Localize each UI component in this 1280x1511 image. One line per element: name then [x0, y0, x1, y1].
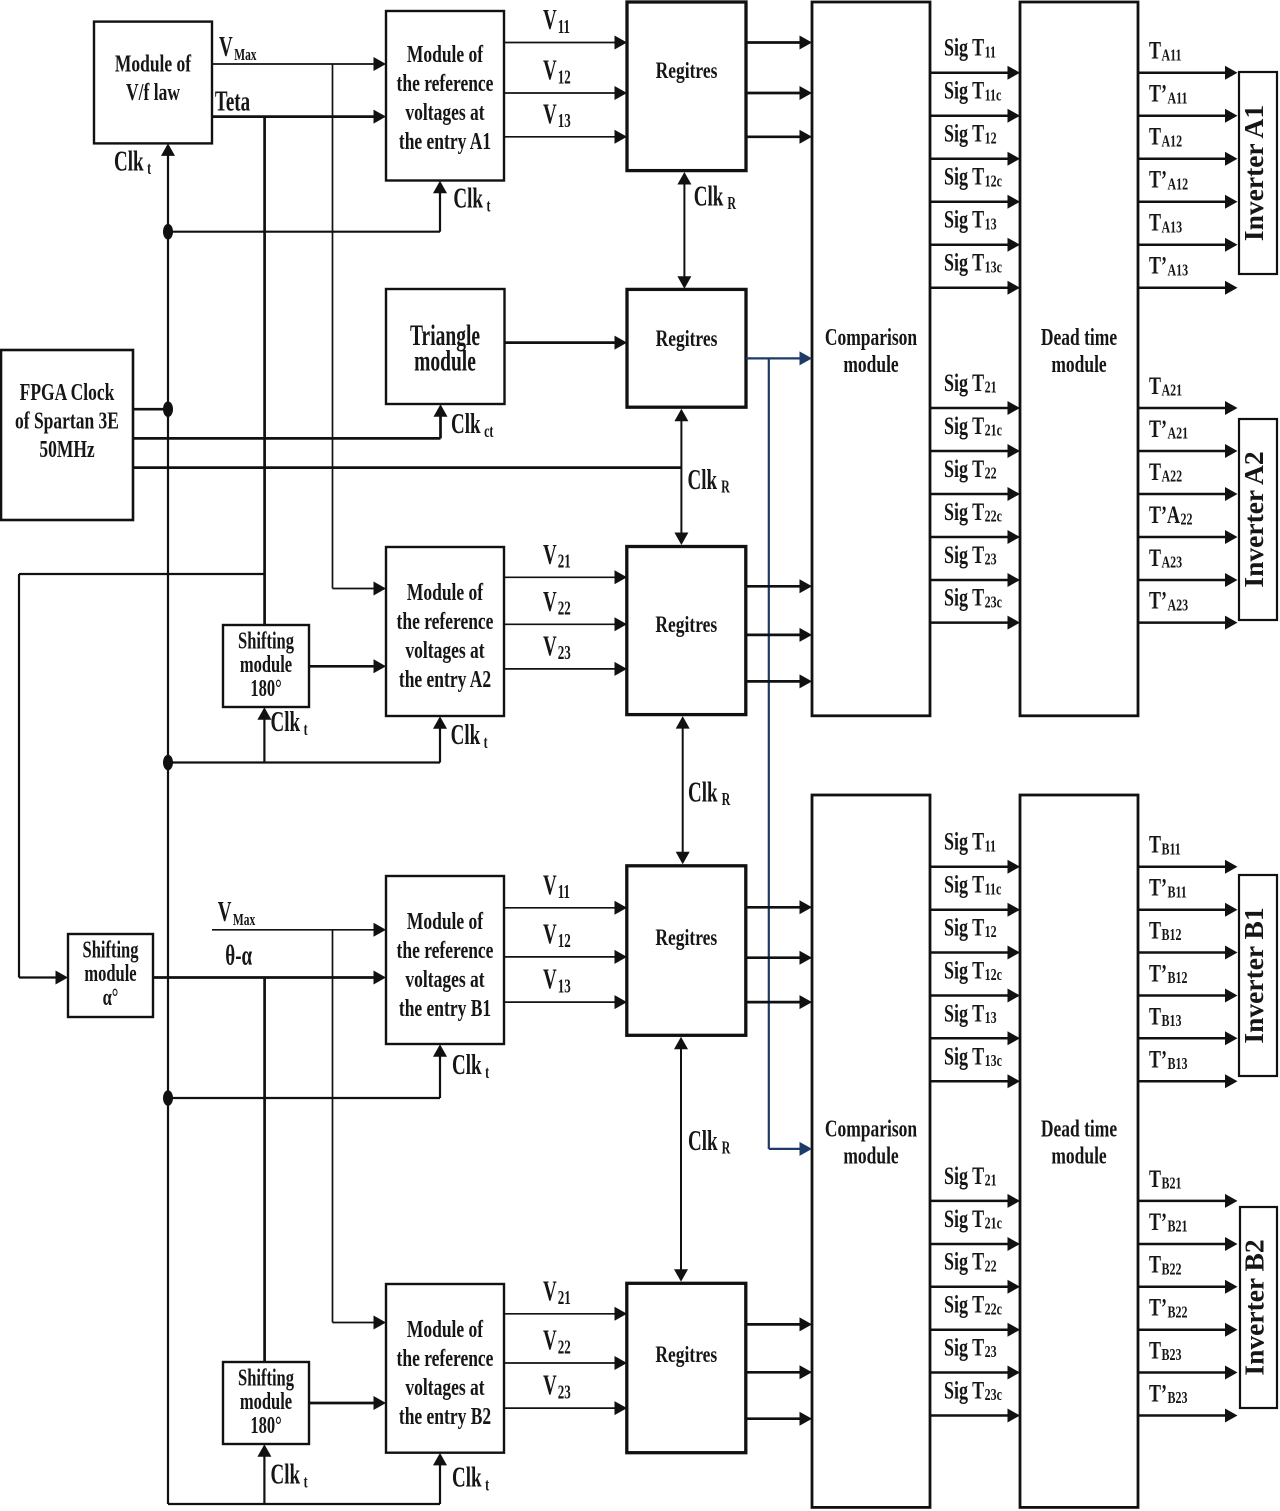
module box: Regitres register bank 4 (B1): [627, 866, 746, 1036]
label T'A21: [1149, 414, 1188, 443]
svg-text:180°: 180°: [250, 1413, 281, 1439]
svg-text:θ-α: θ-α: [225, 940, 252, 972]
wire: Sig T23 from Comparison to Dead time module: [930, 1366, 1020, 1380]
label Sig T12: [944, 912, 997, 941]
module box: Triangle module: [386, 289, 505, 404]
label TB23: [1149, 1335, 1181, 1364]
wire: Teta feed across to left rail: [19, 573, 265, 575]
wire: Clk_R double arrow between Regitres 3 and Regitres 4: [676, 716, 690, 864]
wire: Clk_t branch for A2 row: [168, 761, 440, 763]
svg-text:voltages at: voltages at: [405, 1373, 484, 1401]
label Clk_R (between Regitres 1 and 2): [694, 181, 737, 214]
wire: FPGA clock output 1 to Clk bus: [133, 408, 168, 411]
label TA23: [1149, 543, 1182, 572]
wire: TA23 from Dead time module to Inverter A: [1138, 573, 1238, 587]
wire: V_Max branch into entry B2 top input: [333, 1316, 387, 1330]
svg-text:Regitres: Regitres: [656, 59, 718, 84]
wire: T'A12 from Dead time module to Inverter A: [1138, 195, 1238, 209]
svg-text:Inverter A2: Inverter A2: [1238, 451, 1269, 587]
label Sig T21: [944, 368, 997, 397]
svg-text:Module of: Module of: [115, 49, 192, 77]
wire: V_Max branch down to entry B2: [332, 930, 334, 1323]
wire: V_Max branch into entry A2 top input: [333, 582, 387, 596]
label V22 (A2): [543, 586, 571, 619]
label TB12: [1149, 915, 1181, 944]
label Sig T11: [944, 33, 996, 62]
label Sig T21: [944, 1161, 997, 1190]
svg-text:the entry B1: the entry B1: [399, 994, 491, 1022]
wire: V_Max output of V/f law to entry A1: [212, 57, 386, 71]
label Teta: [215, 86, 250, 118]
svg-text:Dead time: Dead time: [1041, 1115, 1117, 1143]
svg-text:Regitres: Regitres: [655, 926, 717, 951]
svg-text:the reference: the reference: [397, 1344, 494, 1372]
wire: Regitres 1 output to Comparison module A: [746, 36, 812, 50]
wire: Clk bus vertical segment 3: [167, 763, 169, 1099]
wire: Shifting module 180 (A) output to entry A2: [309, 659, 386, 673]
output block box: Inverter B1: [1238, 875, 1277, 1076]
wire: Sig T12 from Comparison to Dead time module: [930, 152, 1020, 166]
label Sig T22: [944, 454, 997, 483]
label TB11: [1149, 830, 1181, 859]
svg-text:voltages at: voltages at: [405, 98, 484, 126]
wire: Sig T21 from Comparison to Dead time module: [930, 1194, 1020, 1208]
wire: navy feed into Comparison module B: [769, 1142, 812, 1156]
label Sig T21c: [944, 1204, 1002, 1233]
junction dot: Clk bus at B1 branch: [163, 1090, 173, 1106]
wire: Regitres 4 output to Comparison module B: [746, 995, 812, 1009]
label V12 (A1): [543, 55, 571, 88]
label V12 (B1): [543, 919, 571, 952]
label TB22: [1149, 1250, 1181, 1279]
wire: T'A13 from Dead time module to Inverter A: [1138, 281, 1238, 295]
svg-text:module: module: [240, 1389, 292, 1415]
wire: V23 from entry A2 to Regitres 3: [504, 662, 627, 676]
wire: Regitres 1 output to Comparison module A: [746, 130, 812, 144]
svg-text:Teta: Teta: [215, 86, 250, 118]
wire: left rail down to Shifting module alpha: [18, 574, 20, 978]
wire: Regitres 2 output to Comparison module A (navy): [746, 351, 812, 365]
module box: Shifting module 180deg (A): [223, 625, 309, 707]
svg-text:Inverter A1: Inverter A1: [1238, 105, 1269, 241]
label V23 (A2): [543, 631, 571, 664]
label TB21: [1149, 1164, 1181, 1193]
label Clk_t (entry B2): [452, 1462, 490, 1495]
wire: TB22 from Dead time module to Inverter B: [1138, 1280, 1238, 1294]
label Sig T13c: [944, 1041, 1002, 1070]
wire: V22 from entry A2 to Regitres 3: [504, 617, 627, 631]
label Sig T23: [944, 540, 997, 569]
label Clk_t (Shifting module 180 B): [271, 1459, 309, 1492]
label TA13: [1149, 208, 1182, 237]
wire: Sig T11 from Comparison to Dead time module: [930, 66, 1020, 80]
label V22 (B2): [543, 1325, 571, 1358]
svg-text:module: module: [84, 961, 136, 987]
svg-text:module: module: [843, 350, 898, 378]
svg-text:Shifting: Shifting: [83, 938, 140, 964]
wire: T'A22 from Dead time module to Inverter A: [1138, 530, 1238, 544]
wire: V_Max line into entry B1: [212, 923, 386, 937]
output block box: Inverter A1: [1238, 72, 1277, 274]
wire: Sig T22c from Comparison to Dead time module: [930, 530, 1020, 544]
label T'B22: [1149, 1293, 1187, 1322]
module box: Comparison module A: [812, 2, 930, 716]
wire: V21 from entry A2 to Regitres 3: [504, 570, 627, 584]
label TA11: [1149, 36, 1181, 65]
wire: V21 from entry B2 to Regitres 5: [504, 1307, 627, 1321]
label Sig T11c: [944, 870, 1002, 899]
wire: Sig T11 from Comparison to Dead time module: [930, 860, 1020, 874]
module box: Regitres register bank 1 (A1): [627, 2, 746, 171]
wire: Sig T12c from Comparison to Dead time module: [930, 989, 1020, 1003]
label Clk_R (between Regitres 4 and 5): [688, 1125, 731, 1158]
wire: Clk_t branch for B1 row: [168, 1097, 440, 1099]
label T'B23: [1149, 1378, 1187, 1407]
label Sig T22c: [944, 1290, 1002, 1319]
wire: Sig T23 from Comparison to Dead time module: [930, 573, 1020, 587]
label V13 (B1): [543, 964, 571, 997]
wire: Regitres 3 output to Comparison module A: [746, 674, 812, 688]
wire: theta-alpha output of Shifting module alpha to entry B1: [153, 971, 386, 985]
svg-text:the entry A2: the entry A2: [399, 665, 491, 693]
svg-text:Dead time: Dead time: [1041, 323, 1117, 351]
label V_Max (B section): [218, 896, 256, 929]
svg-text:the entry B2: the entry B2: [399, 1402, 491, 1430]
wire: Teta output of V/f law to entry A1: [212, 110, 386, 124]
svg-text:Comparison: Comparison: [825, 1115, 917, 1143]
wire: T'A21 from Dead time module to Inverter A: [1138, 444, 1238, 458]
wire: Sig T22 from Comparison to Dead time module: [930, 1280, 1020, 1294]
wire: FPGA clock output 2 (Clk_ct) horizontal: [133, 437, 441, 440]
wire: V11 from entry B1 to Regitres 4: [504, 901, 627, 915]
wire: Clk bus vertical segment 1: [167, 232, 169, 410]
wire: Regitres 4 output to Comparison module B: [746, 900, 812, 914]
label Sig T12c: [944, 162, 1002, 191]
label Clk_R (between Regitres 3 and 4): [688, 777, 731, 810]
module box: Module of V/f law: [94, 22, 212, 144]
label theta-alpha: [225, 940, 252, 972]
svg-text:50MHz: 50MHz: [39, 435, 94, 463]
svg-text:the reference: the reference: [397, 69, 494, 97]
wire: Regitres 3 output to Comparison module A: [746, 628, 812, 642]
wire: V13 from entry A1 to Regitres 1: [504, 130, 627, 144]
module box: Shifting module alpha: [68, 934, 153, 1017]
wire: Sig T13c from Comparison to Dead time module: [930, 1074, 1020, 1088]
wire: Triangle module output to Regitres 2: [505, 336, 628, 350]
svg-text:module: module: [240, 652, 292, 678]
wire: T'B23 from Dead time module to Inverter B: [1138, 1409, 1238, 1423]
label T'B11: [1149, 873, 1187, 902]
wire: FPGA clock output 3 (Clk_R) horizontal: [133, 466, 681, 469]
wire: Clk_t rising into V/f law module: [161, 143, 175, 231]
wire: Regitres 4 output to Comparison module B: [746, 951, 812, 965]
wire: Regitres 1 output to Comparison module A: [746, 86, 812, 100]
wire: Clk_t rising into Shifting module 180 (A): [257, 707, 271, 762]
label Clk_t (entry A2): [451, 719, 489, 752]
wire: TA11 from Dead time module to Inverter A: [1138, 66, 1238, 80]
wire: Clk_R double arrow between Regitres 2 and Regitres 3: [674, 409, 688, 545]
module box: FPGA Clock of Spartan 3E 50MHz: [1, 350, 133, 520]
label TA22: [1149, 457, 1182, 486]
label V11 (A1): [543, 4, 570, 37]
output block box: Inverter B2: [1239, 1207, 1278, 1408]
wire: TB23 from Dead time module to Inverter B: [1138, 1366, 1238, 1380]
label T'A12: [1149, 165, 1188, 194]
label V21 (B2): [543, 1276, 571, 1309]
svg-text:Comparison: Comparison: [825, 323, 917, 351]
svg-text:the reference: the reference: [397, 607, 494, 635]
label Sig T12c: [944, 955, 1002, 984]
label Sig T12: [944, 119, 997, 148]
svg-text:FPGA Clock: FPGA Clock: [20, 378, 115, 406]
label T'A22: [1149, 500, 1192, 529]
svg-text:the entry A1: the entry A1: [399, 127, 491, 155]
wire: V12 from entry B1 to Regitres 4: [504, 950, 627, 964]
wire: TA13 from Dead time module to Inverter A: [1138, 238, 1238, 252]
wire: Clk_t rising into entry B2 module: [433, 1453, 447, 1504]
wire: TB12 from Dead time module to Inverter B: [1138, 946, 1238, 960]
module box: Regitres register bank 2 (triangle): [627, 289, 746, 407]
svg-text:Inverter B2: Inverter B2: [1239, 1239, 1270, 1375]
label Sig T22c: [944, 497, 1002, 526]
label T'B21: [1149, 1207, 1187, 1236]
svg-text:module: module: [843, 1142, 898, 1170]
wire: left rail into Shifting module alpha input: [19, 971, 68, 985]
svg-text:180°: 180°: [250, 676, 281, 702]
label Sig T23: [944, 1332, 997, 1361]
label Clk_t (Shifting module 180 A): [271, 706, 309, 739]
wire: Sig T12c from Comparison to Dead time module: [930, 195, 1020, 209]
wire: T'B21 from Dead time module to Inverter B: [1138, 1237, 1238, 1251]
label Sig T13: [944, 998, 997, 1027]
wire: navy vertical feed to Comparison module B: [768, 358, 770, 1149]
svg-text:Shifting: Shifting: [238, 629, 295, 655]
wire: Sig T13c from Comparison to Dead time module: [930, 281, 1020, 295]
wire: Clk_ct rising into Triangle module: [434, 404, 448, 438]
wire: V22 from entry B2 to Regitres 5: [504, 1356, 627, 1370]
wire: Sig T23c from Comparison to Dead time module: [930, 1409, 1020, 1423]
wire: Clk bus vertical segment 4: [167, 1098, 169, 1504]
wire: Teta branch down to Shifting module 180 (A): [263, 117, 266, 625]
svg-text:voltages at: voltages at: [405, 965, 484, 993]
wire: Clk bus vertical segment 2: [167, 409, 169, 762]
wire: Sig T13 from Comparison to Dead time module: [930, 238, 1020, 252]
wire: Clk_t rising into entry A2 module: [433, 716, 447, 762]
wire: V12 from entry A1 to Regitres 1: [504, 86, 627, 100]
wire: Sig T21 from Comparison to Dead time module: [930, 401, 1020, 415]
wire: Sig T11c from Comparison to Dead time module: [930, 109, 1020, 123]
wire: Regitres 5 output to Comparison module B: [746, 1317, 812, 1331]
svg-text:the reference: the reference: [397, 936, 494, 964]
label V13 (A1): [543, 99, 571, 132]
module box: Dead time module B: [1020, 795, 1138, 1507]
wire: Clk_t rising into Shifting module 180 (B): [257, 1444, 271, 1504]
wire: Sig T23c from Comparison to Dead time module: [930, 616, 1020, 630]
module box: reference voltages entry A2: [386, 547, 504, 716]
label Sig T23c: [944, 1375, 1002, 1404]
svg-text:Inverter B1: Inverter B1: [1238, 907, 1269, 1043]
label T'B13: [1149, 1044, 1187, 1073]
wire: V23 from entry B2 to Regitres 5: [504, 1401, 627, 1415]
wire: Clk_R double arrow between Regitres 4 and Regitres 5: [674, 1037, 688, 1282]
label V_Max (top): [219, 31, 257, 64]
svg-text:Module of: Module of: [407, 907, 484, 935]
wire: Sig T11c from Comparison to Dead time module: [930, 903, 1020, 917]
module box: reference voltages entry A1: [386, 11, 504, 181]
wire: TB11 from Dead time module to Inverter B: [1138, 860, 1238, 874]
label Sig T13c: [944, 248, 1002, 277]
wire: TB13 from Dead time module to Inverter B: [1138, 1031, 1238, 1045]
wire: Sig T13 from Comparison to Dead time module: [930, 1031, 1020, 1045]
wire: Clk_t rising into entry B1 module: [433, 1044, 447, 1098]
wire: Clk_t branch to entry A1 module: [168, 231, 440, 233]
svg-text:voltages at: voltages at: [405, 636, 484, 664]
label Clk_t (entry A1): [453, 183, 491, 216]
svg-text:Regitres: Regitres: [655, 613, 717, 638]
wire: bottom Clk_t rail: [168, 1503, 440, 1505]
wire: Regitres 5 output to Comparison module B: [746, 1412, 812, 1426]
wire: V11 from entry A1 to Regitres 1: [504, 36, 627, 50]
junction dot: Clk bus at FPGA output: [163, 401, 173, 417]
label Sig T21c: [944, 411, 1002, 440]
module box: reference voltages entry B2: [386, 1284, 504, 1453]
label V21 (A2): [543, 539, 571, 572]
wire: Sig T12 from Comparison to Dead time module: [930, 946, 1020, 960]
label Sig T11c: [944, 76, 1002, 105]
svg-text:Shifting: Shifting: [238, 1366, 295, 1392]
label TA12: [1149, 122, 1182, 151]
wire: Sig T21c from Comparison to Dead time module: [930, 1237, 1020, 1251]
label T'A11: [1149, 79, 1187, 108]
wire: T'B12 from Dead time module to Inverter B: [1138, 989, 1238, 1003]
label Sig T23c: [944, 583, 1002, 612]
wire: V_Max branch down to entry A2: [332, 64, 334, 589]
junction dot: Clk bus at A2 branch: [163, 755, 173, 771]
module box: Shifting module 180deg (B): [223, 1362, 309, 1444]
wire: theta-alpha branch down to Shifting module 180 (B): [263, 978, 266, 1363]
label Clk_t (below V/f law): [114, 146, 152, 179]
wire: T'B22 from Dead time module to Inverter B: [1138, 1323, 1238, 1337]
wire: Sig T21c from Comparison to Dead time module: [930, 444, 1020, 458]
module box: Comparison module B: [812, 795, 930, 1507]
svg-text:Module of: Module of: [407, 578, 484, 606]
module box: Regitres register bank 5 (B2): [627, 1283, 746, 1452]
output block box: Inverter A2: [1238, 419, 1277, 620]
wire: T'A11 from Dead time module to Inverter A: [1138, 109, 1238, 123]
wire: Clk_t rising into entry A1 module: [433, 181, 447, 232]
svg-text:Module of: Module of: [407, 1315, 484, 1343]
svg-text:Regitres: Regitres: [656, 327, 718, 352]
label V11 (B1): [543, 870, 570, 903]
wire: Shifting module 180 (B) output to entry B2: [309, 1396, 386, 1410]
label T'B12: [1149, 958, 1187, 987]
junction dot: Clk bus at V/f branch: [163, 224, 173, 240]
wire: T'B11 from Dead time module to Inverter B: [1138, 903, 1238, 917]
wire: Sig T22c from Comparison to Dead time module: [930, 1323, 1020, 1337]
module box: Dead time module A: [1020, 2, 1138, 716]
label Sig T11: [944, 827, 996, 856]
wire: Regitres 5 output to Comparison module B: [746, 1365, 812, 1379]
wire: Regitres 3 output to Comparison module A: [746, 579, 812, 593]
svg-text:V/f law: V/f law: [126, 78, 180, 106]
svg-text:α°: α°: [103, 985, 119, 1011]
svg-text:Regitres: Regitres: [655, 1343, 717, 1368]
wire: TA22 from Dead time module to Inverter A: [1138, 487, 1238, 501]
label Sig T22: [944, 1247, 997, 1276]
wire: T'A23 from Dead time module to Inverter A: [1138, 616, 1238, 630]
wire: Clk_R double arrow between Regitres 1 and Regitres 2: [677, 172, 691, 289]
wire: TB21 from Dead time module to Inverter B: [1138, 1194, 1238, 1208]
label V23 (B2): [543, 1370, 571, 1403]
svg-text:module: module: [1051, 350, 1106, 378]
label Sig T13: [944, 205, 997, 234]
label Clk_R (FPGA feed): [688, 464, 731, 497]
svg-text:Module of: Module of: [407, 40, 484, 68]
svg-text:module: module: [414, 346, 476, 378]
label T'A23: [1149, 586, 1188, 615]
wire: TA12 from Dead time module to Inverter A: [1138, 152, 1238, 166]
label Clk_ct: [451, 408, 494, 441]
label TA21: [1149, 371, 1182, 400]
wire: T'B13 from Dead time module to Inverter B: [1138, 1074, 1238, 1088]
wire: TA21 from Dead time module to Inverter A: [1138, 401, 1238, 415]
svg-text:of Spartan 3E: of Spartan 3E: [15, 407, 119, 435]
wire: V13 from entry B1 to Regitres 4: [504, 995, 627, 1009]
module box: Regitres register bank 3 (A2): [627, 547, 746, 715]
svg-text:module: module: [1051, 1142, 1106, 1170]
label TB13: [1149, 1001, 1181, 1030]
label T'A13: [1149, 251, 1188, 280]
module box: reference voltages entry B1: [386, 876, 504, 1044]
wire: Sig T22 from Comparison to Dead time module: [930, 487, 1020, 501]
label Clk_t (entry B1): [452, 1049, 490, 1082]
